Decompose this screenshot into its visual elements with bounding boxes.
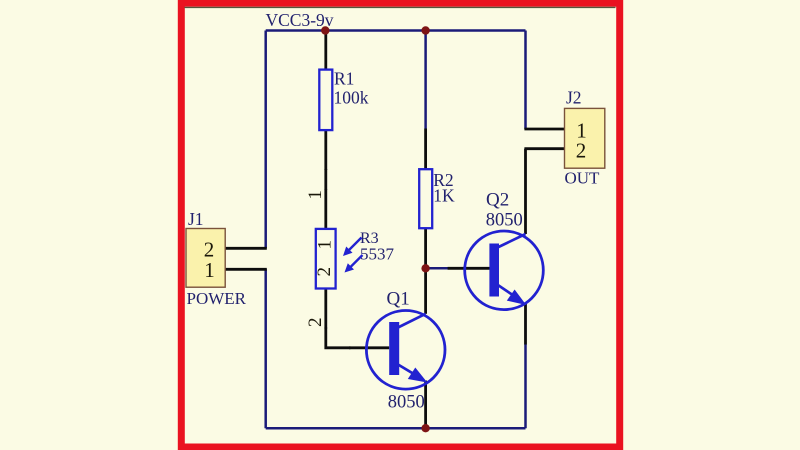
svg-text:100k: 100k [334,88,369,108]
svg-text:2: 2 [576,138,587,162]
pin J2 pin1 stub [524,128,564,131]
junction node R2 / Q2 base / Q1 collector [421,264,429,272]
svg-text:Q2: Q2 [486,190,509,211]
svg-text:5537: 5537 [360,245,395,264]
transistor Q1 [366,311,445,390]
photoresistor R3 body [316,229,336,289]
pin Q1 collector vertical [424,268,427,314]
wire R1 to R3 middle segment [324,169,327,190]
pin R1 pin1 bottom [324,130,327,170]
svg-text:1: 1 [315,240,336,250]
svg-text:Q1: Q1 [387,289,410,310]
svg-text:J1: J1 [188,209,204,229]
arrow pointing to R3 upper [343,238,362,257]
svg-text:J2: J2 [566,88,582,108]
connector J2 body [565,108,605,168]
svg-text:2: 2 [314,267,335,277]
arrow pointing to R3 lower [345,255,363,273]
pin Q1 emitter vertical [424,381,427,429]
wire R2 node to Q2 base [426,267,448,270]
svg-text:2: 2 [305,317,326,327]
junction node Q1 emitter at bottom rail [421,424,429,432]
wire VCC rail to R2 [424,31,427,129]
svg-text:1: 1 [204,258,215,282]
pin J2 pin2 stub [524,147,564,150]
svg-text:OUT: OUT [565,169,601,188]
resistor R2 body [419,169,432,228]
svg-text:POWER: POWER [187,289,247,308]
wire bottom rail [266,427,526,430]
junction node at VCC and R1 [321,26,329,34]
pin R2 top [424,129,427,170]
wire left vertical from VCC rail to J1 pin 2 [264,31,267,249]
wire J1 pin 1 to bottom rail [264,269,267,428]
svg-text:8050: 8050 [486,211,523,231]
pin Q2 emitter vertical [524,304,527,345]
pin R3 pin2 bottom [324,289,327,329]
pin Q2 collector vertical from J2 pin 2 [524,149,527,234]
pin R3 pin1 top [324,189,327,229]
resistor R1 body [319,70,332,131]
svg-text:1: 1 [305,190,326,200]
wire VCC rail right vertical to J2 pin 1 [524,31,527,130]
transistor Q2 [465,231,544,310]
pin R1 pin2 top [324,31,327,70]
junction node at VCC and R2 [421,26,429,34]
pin J1 pin1 stub [225,268,267,271]
pin R2 bottom [424,228,427,268]
svg-text:8050: 8050 [388,393,425,413]
svg-text:R1: R1 [334,69,354,89]
connector J1 body [186,229,225,288]
svg-text:1K: 1K [433,186,455,206]
pin Q1 base [349,346,389,349]
wire Q2 emitter to bottom rail [524,344,527,428]
wire R3 to Q1 base corner [326,328,351,348]
wire VCC top rail [266,29,526,32]
pin Q2 base [448,267,490,270]
pin J1 pin2 stub [225,247,267,250]
